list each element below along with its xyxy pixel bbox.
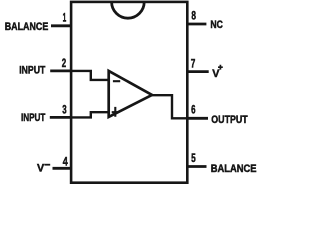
pin 5 lead [186, 165, 206, 168]
svg-text:3: 3 [62, 105, 66, 117]
svg-text:5: 5 [191, 153, 196, 165]
superscript minus of V- [44, 164, 50, 166]
pin 7 lead [186, 70, 208, 73]
superscript plus of V+ [218, 65, 223, 70]
svg-text:V: V [37, 162, 45, 174]
inverting input minus sign [113, 80, 120, 82]
svg-text:BALANCE: BALANCE [211, 163, 257, 175]
svg-text:INPUT: INPUT [21, 112, 46, 124]
pin 2 lead [50, 70, 72, 73]
wire op-amp output to pin6 [152, 95, 188, 118]
svg-text:INPUT: INPUT [19, 64, 45, 76]
svg-text:7: 7 [191, 59, 196, 71]
pin 6 lead [186, 117, 208, 120]
svg-text:V: V [212, 68, 220, 80]
svg-text:BALANCE: BALANCE [5, 21, 49, 33]
notch [112, 2, 145, 18]
svg-text:NC: NC [210, 19, 223, 31]
IC body U1 [71, 2, 187, 183]
non-inverting input plus sign [112, 107, 119, 117]
svg-text:OUTPUT: OUTPUT [211, 114, 248, 126]
svg-text:2: 2 [62, 58, 66, 70]
pin 1 lead [51, 24, 72, 27]
pin 4 lead [53, 167, 73, 170]
svg-text:1: 1 [63, 12, 67, 24]
pin 8 lead [186, 23, 206, 26]
wire pin3 to non-inverting input [71, 112, 110, 117]
wire pin2 to inverting input [71, 71, 110, 80]
op-amp A1 [109, 71, 152, 117]
svg-text:8: 8 [191, 11, 196, 23]
pin 3 lead [50, 116, 72, 119]
svg-text:6: 6 [191, 104, 195, 116]
svg-text:4: 4 [63, 157, 68, 169]
